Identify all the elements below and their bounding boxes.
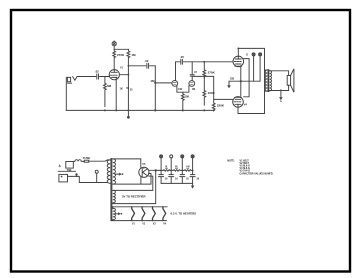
svg-text:5M: 5M — [107, 84, 112, 88]
svg-text:FUSE: FUSE — [83, 156, 91, 160]
svg-text:CAPACITOR VALUES IN MFD.: CAPACITOR VALUES IN MFD. — [240, 172, 274, 175]
svg-text:SW.: SW. — [67, 168, 72, 172]
svg-text:2W: 2W — [175, 168, 178, 170]
svg-text:G: G — [246, 53, 248, 57]
svg-text:100K: 100K — [208, 91, 216, 95]
svg-text:V1: V1 — [120, 67, 124, 70]
svg-text:220K: 220K — [217, 104, 225, 108]
svg-text:16: 16 — [165, 177, 168, 180]
svg-text:2W: 2W — [165, 168, 168, 170]
svg-text:1M: 1M — [150, 79, 155, 83]
svg-text:V5: V5 — [142, 162, 146, 166]
svg-text:.02: .02 — [95, 69, 99, 73]
svg-text:270K: 270K — [208, 70, 216, 74]
svg-text:10K: 10K — [178, 88, 183, 91]
svg-text:20: 20 — [130, 89, 133, 92]
svg-text:V4: V4 — [163, 222, 167, 225]
svg-text:.02: .02 — [145, 59, 149, 63]
svg-text:1M: 1M — [131, 53, 136, 57]
svg-text:V3: V3 — [153, 223, 157, 225]
svg-text:25K: 25K — [185, 95, 190, 99]
svg-text:V4: V4 — [244, 103, 248, 107]
svg-text:6.3 V. TO HEATERS: 6.3 V. TO HEATERS — [171, 211, 197, 215]
svg-text:GB: GB — [230, 77, 234, 81]
svg-text:16: 16 — [196, 177, 199, 180]
svg-text:NOTE:: NOTE: — [227, 159, 235, 162]
svg-text:16: 16 — [175, 177, 178, 180]
svg-text:V1: V1 — [132, 223, 136, 225]
svg-text:1K: 1K — [120, 87, 123, 91]
svg-text:5V TO RECTIFIER: 5V TO RECTIFIER — [122, 194, 146, 198]
svg-text:1W: 1W — [186, 168, 189, 170]
svg-text:1M: 1M — [192, 88, 195, 91]
svg-text:.05: .05 — [180, 55, 184, 59]
svg-text:47: 47 — [194, 70, 197, 74]
svg-text:16: 16 — [186, 177, 189, 180]
svg-text:V2: V2 — [142, 223, 146, 225]
svg-text:270K: 270K — [117, 53, 125, 57]
